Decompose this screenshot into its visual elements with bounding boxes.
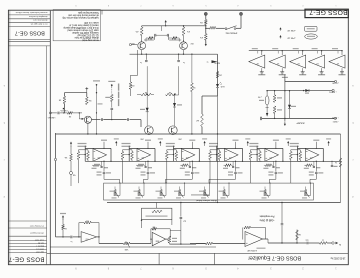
svg-text:1u: 1u	[183, 61, 185, 63]
output wire	[97, 236, 99, 238]
slider potentiometer VR1	[114, 190, 117, 196]
wire to slider	[144, 178, 149, 180]
transistor Q1 2SC2458	[138, 42, 146, 50]
resistor R trig3 1M	[68, 112, 73, 115]
svg-text:220k: 220k	[131, 84, 135, 86]
supply arrow	[328, 142, 330, 146]
terminal wire +9V	[285, 81, 335, 83]
legend row 2	[280, 36, 282, 38]
svg-text:VR8: VR8	[125, 248, 129, 250]
resistor R gate1 1M	[141, 93, 151, 96]
svg-text:ACA ADP: ACA ADP	[296, 121, 305, 124]
feedback loop wire	[85, 147, 111, 149]
feedback loop wire	[217, 147, 243, 149]
op-amp EQ stage 3	[181, 149, 195, 162]
VB stub	[235, 142, 237, 149]
svg-text:+PIN 1/2: +PIN 1/2	[287, 37, 296, 39]
svg-text:1u: 1u	[140, 61, 142, 63]
title column divider	[49, 11, 51, 265]
resistor R vb2	[62, 219, 64, 225]
svg-text:1k: 1k	[335, 161, 337, 163]
svg-text:IC3: IC3	[86, 237, 89, 239]
input resistor SIP	[190, 243, 206, 245]
resistor R led	[216, 72, 219, 78]
supply rail wire	[267, 90, 303, 92]
jack terminal	[327, 242, 332, 244]
svg-text:IC2: IC2	[141, 156, 144, 158]
gyrator resistor Rb	[87, 150, 89, 152]
bottom title strip	[47, 252, 348, 254]
spare opamp rail	[249, 50, 342, 52]
svg-text:1k: 1k	[322, 239, 324, 241]
svg-text:size A4: size A4	[38, 242, 44, 245]
momentary footswitch SW1	[206, 27, 210, 29]
VB stub	[147, 142, 149, 149]
wire FF rail to SW bus	[217, 54, 219, 84]
svg-text:Active volume defeat: Active volume defeat	[196, 199, 217, 202]
op-amp EQ stage 1	[93, 149, 107, 162]
main supply vertical	[284, 75, 286, 122]
svg-text:1/2: 1/2	[337, 62, 339, 64]
capacitor C below rail left	[145, 54, 147, 60]
transistor Q3 buffer	[84, 116, 91, 123]
zener diode ZD	[289, 91, 291, 105]
emitter rail	[130, 53, 218, 55]
cap pre-emphasis	[281, 203, 283, 224]
resistor R below opamp	[225, 164, 231, 167]
svg-text:checked appvd: checked appvd	[31, 232, 44, 234]
svg-text:+ (ACA): + (ACA)	[332, 117, 339, 120]
resistor R below opamp	[94, 164, 100, 167]
slider potentiometer VR8	[304, 190, 307, 196]
svg-text:BOSS GE-7: BOSS GE-7	[15, 30, 45, 36]
svg-text:10k: 10k	[86, 219, 89, 221]
svg-text:scale none: scale none	[35, 239, 44, 241]
svg-text:sheet 1/1: sheet 1/1	[36, 248, 44, 251]
resistor R trig1	[63, 96, 66, 103]
svg-text:BOSS GE-7: BOSS GE-7	[8, 256, 44, 263]
svg-text:+ 9V: + 9V	[257, 96, 262, 98]
label box top-right BOSS GE-7	[305, 9, 348, 17]
svg-text:47k: 47k	[200, 36, 203, 38]
gyrator resistor Ra	[249, 150, 251, 152]
slider potentiometer VR2	[138, 190, 141, 196]
transistor Q2 2SC2458	[180, 42, 188, 50]
ground arrow	[266, 113, 268, 117]
svg-text:to: to	[207, 61, 209, 64]
wire	[240, 16, 242, 29]
slider potentiometer VR6	[223, 190, 226, 196]
svg-text:scale 1 in 100: scale 1 in 100	[84, 21, 99, 23]
svg-text:+3dB @ 2kHz: +3dB @ 2kHz	[259, 218, 275, 221]
base feed	[78, 113, 80, 119]
svg-text:1/2: 1/2	[277, 62, 279, 64]
output wire	[263, 238, 269, 240]
resistor R gate2 1M	[166, 93, 176, 96]
svg-text:appr date: appr date	[36, 251, 44, 254]
terminal pedal-sw T1	[204, 12, 207, 15]
svg-text:stompbox fx archive: stompbox fx archive	[28, 15, 47, 18]
svg-text:1/2: 1/2	[297, 62, 299, 64]
supply arrow	[115, 142, 117, 146]
capacitor C to slider	[235, 161, 237, 171]
svg-text:IC2: IC2	[269, 156, 272, 158]
wire input	[49, 112, 51, 114]
slider potentiometer VR7	[264, 190, 267, 196]
svg-text:+ DC9V: + DC9V	[332, 82, 339, 84]
input terminal circle	[129, 44, 131, 46]
op-amp SIP	[245, 232, 263, 247]
feedback loop wire	[129, 147, 155, 149]
resistor R below opamp	[306, 164, 312, 167]
slider potentiometer VR4	[178, 190, 181, 196]
svg-text:errors may exist: errors may exist	[82, 38, 99, 41]
wire row2 input	[56, 236, 71, 238]
resistor R below opamp	[138, 164, 144, 167]
op-amp IC3b	[150, 239, 152, 243]
resistor R collector Q2	[183, 26, 185, 27]
capacitor C stub	[101, 161, 103, 166]
capacitor C to slider	[103, 161, 105, 171]
svg-text:10k: 10k	[64, 227, 67, 229]
battery lower wire	[262, 117, 334, 119]
resistor R pedal pull-up	[204, 20, 207, 25]
output network IC3b	[166, 238, 168, 240]
resistor R 1M	[296, 230, 298, 244]
capacitor C in series 2	[127, 118, 129, 121]
VB stub	[191, 142, 193, 149]
gyrator resistor Ra	[122, 150, 124, 152]
stage6 output cap	[331, 161, 333, 165]
wire to slider	[104, 178, 120, 180]
wire to SIP buffer	[181, 243, 196, 245]
supply arrow	[287, 142, 289, 146]
resistor R bias	[201, 96, 203, 114]
cross-coupling capacitor C1	[144, 39, 154, 41]
gyrator resistor Rb	[299, 150, 301, 152]
trigger loop wires	[64, 92, 86, 94]
notes box	[53, 10, 100, 41]
capacitor C stub	[232, 161, 234, 166]
capacitor C stub	[145, 161, 147, 166]
gyrator resistor Rb	[219, 150, 221, 152]
base resistor Q2	[172, 37, 177, 40]
svg-text:10k: 10k	[219, 74, 222, 76]
svg-text:- 9VDC: - 9VDC	[332, 120, 339, 122]
capacitor C stub	[313, 161, 315, 166]
svg-text:sheets 1/1 no 5: sheets 1/1 no 5	[32, 19, 47, 22]
resistor R below opamp	[265, 164, 271, 167]
FET Q5 2SK118	[169, 126, 178, 135]
VB stub	[315, 142, 317, 149]
svg-text:4558: 4558	[156, 240, 160, 242]
title block bottom-left	[9, 220, 47, 222]
capacitor C below rail right	[178, 54, 180, 60]
wire to slider	[270, 178, 276, 180]
feedback SIP	[242, 228, 244, 240]
op-amp EQ stage 4	[225, 149, 239, 162]
svg-text:4k7: 4k7	[196, 119, 199, 121]
gyrator resistor Ra	[209, 150, 211, 152]
bias vertical node	[93, 80, 100, 81]
gyrator resistor Rb	[259, 150, 261, 152]
volume defeat bus	[107, 202, 341, 204]
op-amp spare U4	[309, 55, 325, 68]
op-amp spare U2	[269, 55, 285, 68]
electrolytic capacitor C supply	[266, 91, 268, 96]
VB stub	[103, 142, 105, 149]
svg-text:Pre-emphasis: Pre-emphasis	[259, 214, 275, 217]
capacitor C out	[306, 242, 308, 245]
resistor R out	[320, 242, 328, 245]
LED D	[216, 84, 219, 88]
svg-text:dwg no 1: dwg no 1	[36, 245, 44, 247]
flip-flop supply rail	[142, 25, 206, 27]
feedback loop wire	[174, 147, 200, 149]
svg-text:1u: 1u	[71, 240, 73, 242]
svg-text:IC2: IC2	[229, 156, 232, 158]
base resistor Q1	[148, 37, 153, 40]
svg-text:redrawn by hand w plots e: redrawn by hand w plots errors. My	[62, 16, 99, 19]
wire	[205, 25, 207, 34]
gate diode D2	[178, 66, 180, 95]
net flag SW	[212, 60, 218, 63]
supply arrow	[247, 142, 249, 146]
resistor R trig2	[85, 97, 88, 105]
row2 return bus	[50, 246, 216, 248]
resistor R trigger	[204, 34, 207, 41]
terminal pedal-sw T2	[239, 12, 242, 15]
supply arrow vb2	[62, 216, 64, 219]
resistor R supply chain	[274, 91, 276, 95]
svg-text:BOSS GE-7: BOSS GE-7	[309, 9, 347, 16]
label above strip	[257, 248, 266, 249]
capacitor C to slider	[191, 161, 193, 171]
cap vertical branch	[108, 81, 115, 82]
resistor R collector Q1	[141, 26, 143, 27]
svg-text:1/2: 1/2	[316, 62, 318, 64]
gyrator resistor Ra	[290, 150, 292, 152]
svg-text:rev history none: rev history none	[29, 225, 44, 228]
resistor R q1base feed	[130, 75, 132, 82]
svg-text:IC2: IC2	[97, 156, 100, 158]
capacitor C to slider	[315, 161, 317, 171]
terminal wire battery + diode D	[303, 89, 332, 91]
gyrator resistor Rb	[175, 150, 177, 152]
op-amp EQ stage 2	[137, 149, 151, 162]
svg-text:4u7: 4u7	[183, 220, 186, 222]
svg-text:BOSS GE-7 Equalizer: BOSS GE-7 Equalizer	[248, 255, 301, 261]
svg-text:10k: 10k	[64, 156, 67, 158]
feedback loop IC3b	[150, 229, 152, 239]
wire LED to bus	[217, 88, 219, 96]
SW box	[142, 208, 172, 219]
svg-text:10k: 10k	[200, 21, 203, 23]
capacitor C to slider	[275, 161, 277, 171]
wire + down arrow	[205, 40, 207, 44]
feedback loop wire	[298, 147, 324, 149]
FET Q4 2SK118	[145, 126, 154, 135]
gyrator resistor Rb	[131, 150, 133, 152]
feedback loop wire	[257, 147, 283, 149]
svg-text:47k: 47k	[187, 30, 190, 32]
wire to slider	[209, 178, 236, 180]
capacitor C stub	[273, 161, 275, 166]
svg-text:47k: 47k	[135, 30, 138, 32]
op-amp spare U1	[249, 55, 265, 68]
VB stub	[275, 142, 277, 149]
svg-text:SW IN: SW IN	[214, 61, 220, 63]
legend row 1	[280, 28, 282, 30]
emitter stub	[87, 123, 89, 134]
wire stub at top border	[101, 10, 103, 14]
svg-text:IC2: IC2	[186, 156, 189, 158]
stage1 VB node	[70, 143, 72, 147]
vertical label text	[118, 84, 119, 91]
level slider VR8	[124, 242, 130, 245]
svg-text:+ (BATT): + (BATT)	[329, 90, 337, 93]
main bus wire	[56, 133, 341, 135]
title block top-left	[9, 14, 51, 16]
gate diode D1	[146, 66, 148, 108]
slider assembly box	[104, 183, 314, 200]
svg-text:L/MONO: L/MONO	[47, 116, 55, 118]
svg-text:0u5: 0u5	[306, 239, 309, 241]
feedback loop IC3a	[78, 223, 80, 237]
resistor R right edge	[339, 158, 342, 167]
op-amp EQ stage 5	[265, 149, 279, 162]
op-amp EQ stage 6	[305, 149, 319, 162]
resistor R from rail	[191, 54, 193, 83]
svg-text:1/2: 1/2	[257, 62, 259, 64]
center vertical from rail	[161, 26, 163, 31]
wire	[205, 15, 207, 20]
capacitor C stub	[189, 161, 191, 166]
gyrator resistor Ra	[78, 150, 80, 152]
cap 4u7 branch	[180, 203, 182, 217]
capacitor C in series	[92, 119, 101, 121]
cross wires	[154, 35, 156, 40]
supply arrow	[204, 142, 206, 146]
svg-text:rev 1 date appr ok: rev 1 date appr ok	[30, 22, 48, 25]
capacitor C trig	[51, 112, 57, 114]
wire to slider	[166, 178, 193, 180]
supply arrow	[159, 142, 161, 146]
cross-coupling capacitor C2	[166, 34, 168, 37]
capacitor C to slider	[147, 161, 149, 171]
svg-text:scanned schematic heaven ef: scanned schematic heaven effects	[16, 11, 48, 14]
slider potentiometer VR5	[203, 190, 206, 196]
svg-text:10k: 10k	[152, 226, 155, 228]
svg-text:IC1 & IC2 = JRC4558 dual opa: IC1 & IC2 = JRC4558 dual opamp	[63, 26, 99, 28]
svg-text:IC2: IC2	[310, 156, 313, 158]
gyrator resistor Ra	[166, 150, 168, 152]
op-amp IC3a	[81, 232, 97, 243]
svg-text:+PIN 1/2: +PIN 1/2	[287, 29, 296, 31]
svg-text:(PEDAL SW): (PEDAL SW)	[225, 31, 237, 34]
svg-text:LED: LED	[220, 85, 224, 87]
svg-text:19.05.2002 kz: 19.05.2002 kz	[330, 257, 346, 260]
svg-text:8-PIN SIP: 8-PIN SIP	[247, 249, 257, 251]
op-amp spare U5	[329, 55, 345, 68]
op-amp spare U3	[290, 55, 306, 68]
capacitor C row2 in	[70, 236, 72, 239]
resistor R below opamp	[182, 164, 188, 167]
wire to slider	[310, 178, 316, 180]
slider potentiometer VR3	[160, 190, 163, 196]
